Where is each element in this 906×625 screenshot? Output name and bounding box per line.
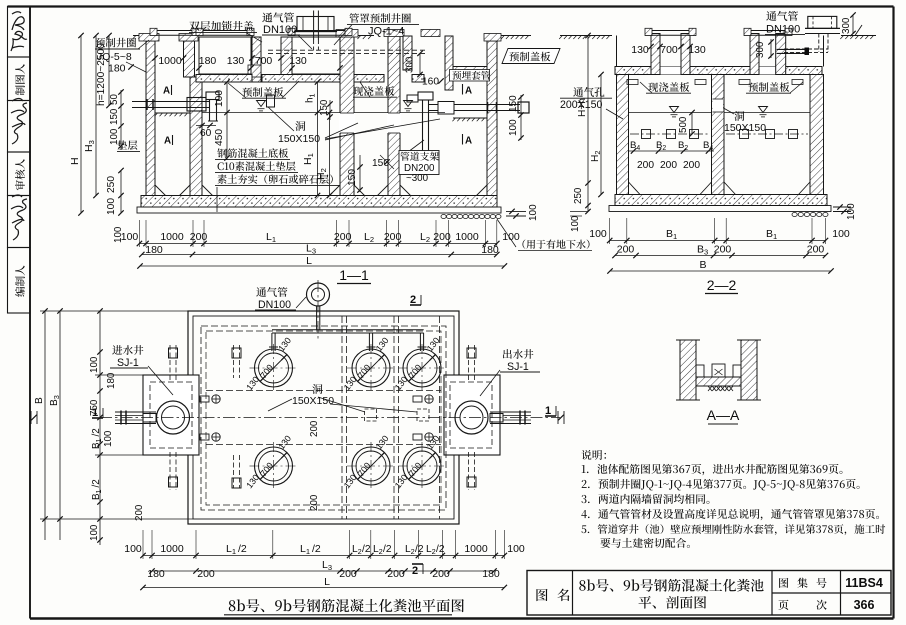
2-2 left dim H2	[600, 75, 602, 195]
leader to groundwater note	[497, 219, 516, 247]
2-2 left dim H+h	[587, 36, 589, 212]
svg-text:200: 200	[660, 160, 677, 171]
svg-text:100: 100	[124, 543, 142, 555]
svg-text:100: 100	[832, 228, 850, 240]
label bianzhi-ren (compiler)	[15, 266, 25, 297]
label tong-qi-guan DN100 top	[262, 12, 294, 22]
svg-text:500: 500	[678, 116, 689, 133]
label concrete base 3 lines	[217, 148, 288, 158]
label dian-ceng	[117, 140, 137, 150]
2-2 left dims 250 100	[585, 180, 590, 185]
svg-text:450: 450	[214, 129, 225, 146]
2-2 vent pipe horizontal	[784, 48, 828, 50]
2-2 middle wall	[712, 75, 725, 195]
svg-text:DN100: DN100	[258, 299, 291, 311]
dim 100 150 right side	[520, 95, 522, 140]
plan wall opening squares	[365, 409, 377, 421]
svg-text:/2: /2	[436, 544, 445, 555]
middle wall W-M1	[340, 37, 354, 196]
svg-text:100: 100	[106, 198, 117, 215]
manhole pit 2 box	[292, 37, 340, 74]
svg-text:250: 250	[573, 187, 584, 204]
plan interior wall 2 dashed	[393, 316, 395, 519]
vent shaft right wall W-D	[281, 37, 292, 82]
2-2 baffle dim line B4 B2 B2 B4	[628, 150, 714, 152]
plan label jin-shui-jing SJ-1	[112, 345, 143, 355]
plan dim row 1	[143, 555, 504, 557]
plan left extension lines	[40, 310, 188, 312]
svg-text:100: 100	[109, 128, 120, 145]
svg-text:100: 100	[502, 231, 520, 243]
svg-text:150: 150	[508, 95, 519, 112]
svg-text:366: 366	[854, 598, 875, 612]
svg-text:/2: /2	[383, 544, 392, 555]
svg-text:200: 200	[432, 568, 450, 580]
2-2 outer wall left	[617, 75, 629, 195]
plan interior wall 1 dashed	[341, 316, 343, 519]
svg-text:200: 200	[387, 568, 405, 580]
svg-text:180: 180	[147, 568, 165, 580]
svg-text:A: A	[465, 86, 472, 97]
2-2 lids	[645, 30, 696, 32]
plan label dong 150X150	[312, 384, 322, 394]
svg-text:200: 200	[683, 160, 700, 171]
svg-text:A—A: A—A	[707, 407, 740, 423]
svg-text:100: 100	[528, 204, 539, 221]
vent pipe dashed run	[313, 40, 315, 51]
svg-text:180: 180	[481, 244, 499, 256]
svg-text:1—1: 1—1	[339, 267, 369, 283]
svg-text:700: 700	[255, 55, 273, 67]
2-2 water levels	[629, 112, 711, 114]
plan outlet well circles	[455, 401, 488, 434]
svg-text:11BS4: 11BS4	[845, 576, 883, 590]
lid over inlet shaft	[150, 30, 199, 32]
inlet shaft right wall W-B	[184, 41, 195, 77]
svg-text:100: 100	[214, 90, 225, 107]
plan inner stub pipes near inlet well	[233, 345, 235, 378]
inlet tee and drop pipe	[206, 92, 219, 100]
svg-text:/2: /2	[362, 544, 371, 555]
mid horizontal pipe to outlet	[429, 104, 521, 106]
2-2 shaft A walls	[660, 67, 681, 75]
svg-text:/2: /2	[91, 428, 102, 436]
section 1-1 soil between shafts	[358, 35, 374, 37]
manhole pit 1 box	[199, 37, 251, 74]
plan inner dashed rects	[201, 326, 446, 510]
plan inlet well circles	[157, 401, 190, 434]
2-2 label tong-qi-kong 200X150	[573, 87, 604, 97]
lid over pit 1	[196, 30, 254, 32]
2-2 dim 300 right	[852, 15, 854, 34]
2-2 pebbles	[792, 212, 797, 216]
left dim h=1200~2500	[108, 36, 110, 106]
2-2 dim row 3	[610, 270, 831, 272]
label yu-mai tao-guan	[450, 70, 490, 82]
plan well stub pipes	[169, 345, 171, 380]
svg-text:DN100: DN100	[263, 24, 297, 36]
svg-text:100: 100	[103, 430, 114, 447]
svg-text:130: 130	[289, 55, 307, 67]
plan vent pipe run	[272, 329, 424, 331]
2-2 label tongqiguan DN100	[766, 11, 798, 21]
chamber bottom fillets	[155, 185, 166, 196]
dim 60	[196, 125, 216, 127]
svg-text:200: 200	[309, 494, 320, 511]
2-2 vent cap	[808, 16, 837, 28]
label dong 150x150 in 1-1	[295, 121, 305, 131]
svg-text:A: A	[164, 136, 171, 147]
plan right inner wall dashed	[439, 316, 441, 519]
svg-text:200: 200	[197, 568, 215, 580]
label yu-zhi gai-ban flag right	[502, 49, 560, 64]
2-2 dim row 2	[615, 255, 826, 257]
svg-text:150: 150	[109, 108, 120, 125]
cover slab segment 2	[262, 75, 340, 83]
svg-text:~300: ~300	[406, 173, 429, 184]
lid over pit 2	[288, 30, 352, 32]
svg-text:180: 180	[108, 63, 126, 75]
svg-text:200: 200	[617, 244, 635, 256]
svg-text:1000: 1000	[455, 231, 479, 243]
svg-text:60: 60	[200, 128, 212, 139]
svg-text:DN100: DN100	[766, 24, 800, 36]
svg-text:/2: /2	[238, 543, 247, 555]
dim H2 in 1-1	[329, 113, 331, 196]
svg-text:300: 300	[755, 41, 766, 58]
vent cap assembly	[297, 17, 334, 32]
plan centerline horizontal	[100, 417, 560, 419]
note yong-yu-you-di-xia-shui	[522, 240, 589, 249]
vent shaft left wall W-C	[252, 37, 261, 82]
svg-text:1000: 1000	[160, 543, 184, 555]
2-2 blinding layer	[609, 206, 831, 212]
svg-text:200: 200	[339, 568, 357, 580]
svg-text:130: 130	[227, 55, 245, 67]
dim row 3 of 1-1	[140, 265, 504, 267]
page label	[778, 600, 788, 610]
svg-text:180: 180	[482, 568, 500, 580]
svg-text:100: 100	[89, 524, 100, 541]
section 1-1 ground line right	[497, 35, 531, 37]
left small dims 50 150 100	[120, 90, 122, 150]
section 1-1 ground line left	[133, 35, 150, 37]
label yu-zhi jing-quan JQ-5~8	[95, 38, 136, 48]
svg-text:100: 100	[589, 228, 607, 240]
plan outlet pipe	[490, 411, 531, 413]
svg-text:160: 160	[422, 77, 439, 88]
plan bottom extension lines	[142, 530, 144, 559]
label shenhe-ren (checker)	[15, 159, 25, 190]
svg-text:200: 200	[637, 160, 654, 171]
wall openings in mid walls	[339, 113, 355, 133]
plan dim row 2	[152, 570, 494, 572]
outer wall right W-I	[487, 41, 497, 196]
left signature column	[8, 7, 31, 58]
svg-text:130: 130	[631, 44, 649, 56]
svg-text:200: 200	[384, 231, 402, 243]
pipe shaft cap	[421, 30, 440, 37]
middle wall W-M2	[388, 36, 400, 196]
detail A-A left wall	[680, 340, 696, 400]
svg-text:A: A	[465, 136, 472, 147]
cover slab segment 5	[453, 67, 487, 76]
svg-text:300: 300	[841, 17, 852, 34]
detail A-A rebar blocks	[696, 365, 704, 377]
plan outlet well block	[444, 375, 500, 455]
2-2 label dong 150X150	[734, 111, 744, 121]
label yu-zhi gai-ban	[242, 87, 283, 97]
svg-text:250: 250	[106, 176, 117, 193]
svg-text:200: 200	[190, 231, 208, 243]
detail A-A bottom slab	[696, 377, 741, 386]
svg-text:50: 50	[109, 94, 120, 105]
svg-text:200: 200	[334, 231, 352, 243]
pebble layer	[441, 214, 446, 218]
2-2 ground step connectors	[616, 36, 618, 67]
svg-text:/2: /2	[312, 543, 321, 555]
dim 100 450 left inner	[226, 82, 228, 160]
tu ming (drawing name) label	[536, 589, 547, 601]
svg-text:1000: 1000	[160, 231, 184, 243]
svg-text:100: 100	[508, 119, 519, 136]
2-2 chamber fillets	[629, 182, 641, 195]
svg-text:750: 750	[89, 399, 100, 416]
svg-text:SJ-1: SJ-1	[507, 361, 529, 373]
plan vent circle	[307, 283, 330, 306]
svg-text:JQ-1~4: JQ-1~4	[368, 26, 404, 38]
svg-text:200: 200	[807, 244, 825, 256]
label zhitu-ren (drafter)	[15, 64, 25, 95]
section 2-2 ground line left	[560, 35, 612, 37]
section 2-2 ground line right	[841, 35, 876, 37]
dim row 2 of 1-1	[142, 254, 497, 256]
svg-text:100: 100	[89, 356, 100, 373]
inlet pipe	[132, 101, 209, 103]
dim 150 vertical near mid wall	[359, 155, 361, 192]
drawing title text	[579, 579, 763, 592]
dim row 1 of 1-1	[139, 243, 496, 245]
2-2 label xian-jiao gai-ban	[648, 82, 689, 92]
bottom slab	[141, 196, 497, 208]
svg-text:200: 200	[714, 244, 732, 256]
plan dashed horizontals	[206, 390, 441, 392]
svg-text:700: 700	[660, 44, 678, 56]
svg-text:100: 100	[570, 215, 581, 232]
title block	[527, 571, 891, 616]
svg-text:300: 300	[405, 56, 416, 73]
notes text block (shuoming)	[581, 450, 606, 460]
signature 2 cell3	[11, 99, 27, 145]
mid tee and drop pipe	[407, 95, 418, 102]
left dim H3	[95, 36, 97, 196]
2-2 dim row 1	[610, 240, 826, 242]
plan left dim lines	[44, 311, 46, 540]
svg-text:200: 200	[309, 420, 320, 437]
svg-text:SJ-1: SJ-1	[117, 357, 139, 369]
sludge line in outlet chamber	[453, 117, 487, 119]
cover slab segment 4	[412, 75, 424, 83]
cover slab segment 1	[196, 75, 252, 83]
2-2 bottom slab	[615, 195, 827, 206]
2-2 dim 300 left of shaft B	[770, 39, 772, 58]
plan manhole circles	[255, 349, 293, 387]
svg-text:150X150: 150X150	[724, 122, 766, 134]
svg-text:150: 150	[372, 158, 389, 169]
dim h1	[317, 82, 319, 113]
vent stub in slab	[267, 95, 275, 107]
svg-text:A: A	[163, 86, 170, 97]
bottom dim extension lines 1-1	[138, 220, 140, 247]
svg-text:L: L	[324, 576, 330, 588]
left dim H	[80, 36, 82, 214]
atlas number label	[779, 578, 788, 588]
plan outer rectangle	[188, 311, 459, 524]
svg-text:L: L	[306, 255, 312, 267]
plan vent label	[256, 287, 287, 297]
2-2 baffle squares and centerlines	[630, 133, 710, 135]
svg-text:B: B	[699, 259, 706, 271]
outer wall left W-A	[146, 41, 155, 196]
2-2 label yu-zhi gai-ban	[748, 82, 789, 92]
plan inlet well block	[143, 375, 199, 455]
shaft wall W-G right of M2	[403, 36, 412, 70]
signature 3 cell5	[11, 195, 27, 240]
label guan-zhao yu-zhi jing-quan JQ-1~4	[349, 13, 411, 23]
svg-text:1000: 1000	[158, 55, 182, 67]
water line	[202, 112, 340, 114]
plan label chu-shui-jing SJ-1	[503, 349, 534, 359]
water level mark 2	[404, 101, 413, 107]
svg-text:1000: 1000	[464, 543, 488, 555]
label guan-dao zhi-jia DN200-300	[399, 151, 439, 175]
cover slab segment 3	[354, 75, 384, 83]
svg-text:2—2: 2—2	[707, 277, 737, 293]
2-2 shaft B walls	[759, 67, 776, 75]
detail A-A soil hatch	[708, 386, 712, 391]
wall W-H	[445, 36, 453, 90]
plan caption underlined	[229, 599, 464, 612]
inner wall W-B2	[190, 77, 202, 196]
plan centerline cross marks	[30, 411, 32, 424]
dim 150 h1 area	[329, 100, 331, 120]
left dim 250 100	[120, 171, 122, 214]
2-2 slab beam stubs	[627, 80, 638, 85]
2-2 outer wall right	[810, 75, 824, 195]
plan flange symbols	[212, 395, 220, 403]
blinding layer dian-ceng	[137, 207, 501, 213]
svg-text:100: 100	[846, 203, 857, 220]
label shuang-ceng jia-suo jing-gai	[189, 21, 253, 31]
svg-text:150: 150	[319, 99, 330, 116]
svg-text:B: B	[34, 397, 45, 404]
dim 300 below vent line	[419, 53, 421, 74]
svg-text:150: 150	[347, 169, 358, 186]
detail A-A right wall	[741, 340, 757, 400]
svg-text:200: 200	[433, 231, 451, 243]
label xian-jiao gai-ban 1-1	[353, 86, 394, 96]
dim H1	[317, 113, 319, 196]
2-2 mid wall opening	[713, 99, 724, 112]
2-2 bottom extension lines	[609, 218, 611, 244]
svg-text:h=1200~2500: h=1200~2500	[96, 43, 107, 106]
svg-text:150X150: 150X150	[292, 395, 334, 407]
signature chen-xiang top cell	[11, 12, 27, 51]
2-2 dim 500	[691, 113, 693, 135]
svg-text:/2: /2	[91, 479, 102, 487]
svg-text:H: H	[69, 157, 81, 165]
plan inlet pipe	[115, 411, 156, 413]
svg-text:180: 180	[145, 244, 163, 256]
2-2 top slab	[615, 67, 822, 75]
water level mark 1	[257, 101, 266, 107]
2-2 right dim 100 double line	[833, 206, 851, 208]
sludge line in inlet chamber	[155, 112, 190, 114]
svg-text:200: 200	[134, 504, 145, 521]
svg-text:100: 100	[507, 543, 525, 555]
svg-text:/2: /2	[415, 544, 424, 555]
svg-text:H+h: H+h	[577, 98, 588, 117]
plan dim row 3	[143, 587, 504, 589]
svg-text:180: 180	[106, 372, 117, 389]
svg-text:100: 100	[113, 226, 124, 243]
dim 100 double-line right bottom	[506, 210, 526, 212]
svg-text:150X150: 150X150	[278, 133, 320, 145]
